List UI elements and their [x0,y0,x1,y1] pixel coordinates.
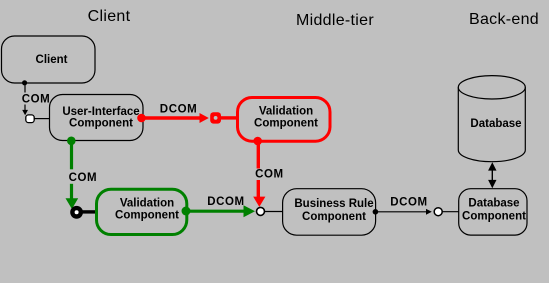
svg-text:Business Rule: Business Rule [294,198,373,210]
node dot on Client bottom [22,80,27,85]
interface lollipop on User-Interface Component [26,115,34,123]
node red dot on red Validation bottom [253,137,262,146]
interface lollipop before Business Rule Component [257,207,265,215]
wire green COM vertical down [70,141,73,199]
wire COM from Client down [24,83,26,112]
svg-text:Client: Client [88,8,131,25]
node green dot on User-Interface bottom [67,137,76,146]
node dot on Business Rule right [373,209,379,215]
svg-text:User-Interface: User-Interface [62,106,139,118]
svg-text:Validation: Validation [259,106,313,118]
svg-text:COM: COM [255,169,284,181]
wire lollipop to green Validation box [82,210,97,213]
wire DCOM to lollipop [375,211,426,213]
svg-text:COM: COM [22,94,51,106]
svg-text:Back-end: Back-end [469,11,539,28]
svg-text:Database: Database [468,197,519,209]
wire double arrow cylinder to Database Component [491,167,493,184]
box User-Interface Component [50,95,144,141]
wire green DCOM horizontal [186,210,244,213]
arrowhead right red [200,113,209,123]
box Validation Component (green) [97,189,187,234]
arrowhead down (client COM) [22,110,28,115]
label COM (client link) [20,93,50,106]
interface lollipop red on Validation Component [210,112,221,123]
arrowhead right black [426,209,432,215]
svg-text:COM: COM [69,172,98,184]
svg-text:DCOM: DCOM [207,196,245,208]
svg-text:Component: Component [254,117,318,129]
arrowhead down (to Database Component) [488,180,496,188]
svg-text:Component: Component [302,211,366,223]
label COM (green link) [66,169,97,184]
wire lollipop to red Validation box [221,116,237,119]
box Business Rule Component [283,189,376,236]
svg-text:Client: Client [36,54,68,66]
wire lollipop to Business Rule box [265,211,283,213]
arrowhead up (to cylinder) [488,162,496,170]
box Client [2,36,96,83]
node green dot on green Validation right [182,207,191,216]
wire lollipop to User-Interface box [34,118,49,120]
wire red COM vertical down [257,141,260,198]
wire lollipop to Database Component box [442,211,459,213]
arrowhead down red [253,197,265,207]
box Database Component [459,189,527,235]
svg-text:Component: Component [462,210,526,222]
svg-text:Middle-tier: Middle-tier [296,12,374,29]
svg-text:Database: Database [470,118,521,130]
svg-text:DCOM: DCOM [160,104,198,116]
interface lollipop (thick) before green Validation [72,208,80,216]
wire red DCOM horizontal [142,116,200,119]
svg-text:Component: Component [69,118,133,130]
label COM (red link) [253,169,284,181]
node red dot on User-Interface right [137,114,146,123]
interface lollipop before Database Component [434,208,442,216]
box Validation Component (red) [238,98,331,142]
arrowhead down green [66,198,79,209]
cylinder Database [458,76,525,162]
arrowhead right green [244,205,256,217]
svg-text:Validation: Validation [120,198,174,210]
svg-text:DCOM: DCOM [390,196,428,208]
svg-text:Component: Component [115,210,179,222]
